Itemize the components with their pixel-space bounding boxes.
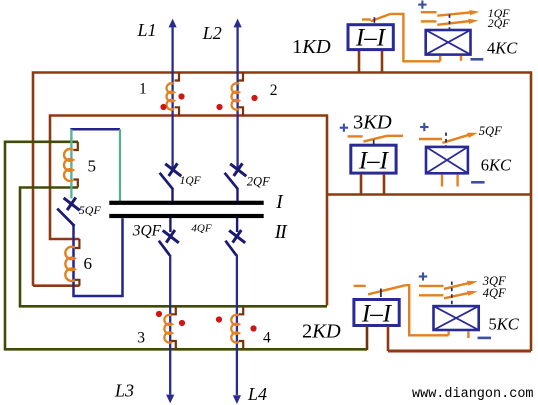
wire brown secondary bus A (top) — [33, 73, 531, 352]
node L1 arrow — [169, 19, 177, 28]
wire feeder L3 — [169, 255, 171, 395]
relay 1KD box — [348, 25, 393, 50]
transformer CT6 coil — [65, 247, 74, 281]
node L3 arrow — [166, 395, 174, 404]
wire navy tie-loop top — [70, 128, 120, 131]
svg-text:L4: L4 — [247, 384, 267, 404]
contact 1QF aux — [421, 12, 472, 16]
svg-text:II: II — [274, 222, 288, 243]
svg-text:I: I — [275, 192, 284, 213]
node minus terminal 6KC — [471, 181, 485, 184]
node minus terminal 5KC — [478, 337, 492, 340]
wire feeder L1 — [171, 26, 173, 169]
svg-text:I–I: I–I — [361, 301, 393, 328]
node plus terminal 5QF — [420, 123, 428, 131]
svg-text:5QF: 5QF — [479, 124, 502, 138]
svg-text:3: 3 — [137, 330, 145, 347]
svg-text:I–I: I–I — [358, 148, 390, 175]
node plus terminal bottom — [419, 272, 427, 280]
svg-text:1: 1 — [139, 81, 147, 98]
svg-text:4: 4 — [263, 329, 271, 346]
wire 1KD stubs — [358, 51, 361, 73]
wire brown 2KD bottom — [388, 350, 531, 353]
node L2 arrow — [234, 19, 242, 28]
contact 2KD trip — [354, 285, 469, 338]
svg-text:2QF: 2QF — [247, 174, 270, 188]
wire feeder L2 — [236, 26, 238, 169]
wire feeder L4 — [236, 255, 238, 395]
transformer CT1 coil — [166, 83, 174, 109]
relay 2KD box — [354, 300, 399, 326]
node plus terminal 3KD — [340, 124, 348, 132]
transformer CT4 coil — [231, 315, 239, 343]
wire 2KD stubs — [366, 326, 369, 350]
svg-text:5: 5 — [88, 157, 97, 176]
relay coil 5KC box — [434, 306, 479, 330]
contact 5QF aux — [419, 135, 469, 143]
wire olive CT5 top to 2KD — [5, 142, 367, 349]
relay coil 4KC box — [426, 30, 471, 55]
node CT4 polarity dots — [216, 316, 222, 322]
svg-text:L2: L2 — [202, 23, 222, 43]
breaker 1QF — [160, 163, 182, 201]
breaker 5QF (bus tie) — [57, 198, 79, 227]
node 3KD contact link dash — [373, 140, 375, 145]
breaker 4QF — [225, 218, 245, 255]
busbar II — [109, 214, 263, 218]
wire teal tie left drop — [70, 129, 72, 198]
svg-text:L3: L3 — [114, 380, 134, 400]
transformer CT5 coil — [64, 149, 73, 181]
transformer CT5 bracket — [73, 142, 77, 188]
svg-text:5KC: 5KC — [489, 315, 520, 334]
wire 6KC stubs — [442, 175, 458, 187]
svg-text:www.diangon.com: www.diangon.com — [412, 387, 534, 402]
svg-text:2: 2 — [270, 82, 278, 99]
node minus terminal top — [471, 58, 484, 61]
node 5QF link dash — [445, 133, 447, 147]
svg-text:3QF: 3QF — [132, 223, 162, 240]
contact 3KD trip — [348, 136, 403, 142]
svg-text:4QF: 4QF — [483, 286, 506, 300]
node CT2 polarity dots — [216, 104, 222, 110]
svg-text:1KD: 1KD — [292, 36, 331, 58]
wire 3KD stubs — [360, 174, 363, 195]
svg-text:4QF: 4QF — [191, 222, 211, 234]
wire olive CT5 bottom to CT3/CT4 bus — [20, 188, 327, 307]
svg-text:5QF: 5QF — [79, 203, 102, 217]
node CT3 polarity dots — [156, 311, 162, 317]
relay coil 6KC box — [426, 147, 468, 173]
transformer CT3 coil — [164, 315, 172, 343]
node L4 arrow — [233, 395, 241, 404]
svg-text:2KD: 2KD — [302, 321, 341, 343]
node CT1 polarity dots — [178, 93, 184, 99]
svg-text:3KD: 3KD — [353, 112, 392, 134]
breaker 2QF — [225, 163, 247, 201]
contact 3QF aux — [419, 283, 469, 289]
transformer CT6 bracket — [75, 239, 79, 286]
svg-text:1QF: 1QF — [180, 175, 202, 187]
svg-text:L1: L1 — [137, 20, 157, 40]
transformer CT2 coil — [231, 83, 239, 109]
breaker 3QF — [159, 218, 179, 255]
transformer CT2 bracket — [239, 73, 243, 116]
wire brown A to CT6 bottom — [33, 284, 80, 287]
node plus terminal top — [418, 1, 426, 9]
wire teal tie to bus I — [119, 129, 121, 201]
wire brown 3KD link — [327, 193, 531, 196]
transformer CT1 bracket — [175, 73, 179, 116]
svg-text:2QF: 2QF — [488, 16, 510, 30]
contact 2QF aux — [421, 21, 471, 25]
relay 3KD box — [351, 145, 396, 173]
contact 4QF aux — [419, 293, 469, 298]
contact 1KD trip — [362, 14, 461, 61]
node 2KD contact link dash — [380, 289, 382, 298]
svg-text:6: 6 — [84, 254, 93, 273]
wire brown secondary bus B — [50, 116, 327, 306]
svg-text:6KC: 6KC — [481, 156, 512, 175]
busbar I — [109, 201, 263, 205]
node 1KD contact link dash — [373, 17, 375, 23]
svg-text:I–I: I–I — [355, 25, 387, 52]
transformer CT4 bracket — [239, 306, 243, 349]
node QF link dashes top — [449, 15, 451, 30]
transformer CT3 bracket — [171, 306, 175, 349]
wire navy tie-loop bottom to bus II — [74, 218, 123, 296]
svg-text:4KC: 4KC — [487, 39, 518, 58]
node QF link dashes bottom — [451, 282, 453, 306]
